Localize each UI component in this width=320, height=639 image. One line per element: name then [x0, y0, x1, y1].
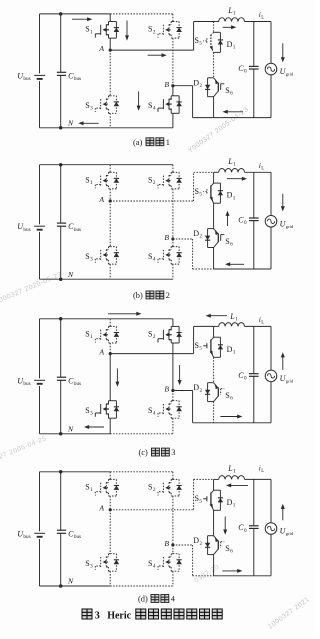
svg-text:D2: D2	[193, 383, 202, 394]
svg-text:S4: S4	[148, 101, 156, 112]
wire left vertical upper (b)	[39, 165, 41, 225]
wire inductor to grid corner (d)	[245, 478, 272, 480]
svg-text:S1: S1	[85, 330, 93, 341]
current arrow 3 (b)	[281, 194, 285, 212]
wire S1 drain lead (a)	[109, 14, 111, 22]
wire A corner vertical (d)	[193, 479, 195, 509]
svg-text:S3: S3	[85, 406, 93, 417]
svg-text:1000327 2021: 1000327 2021	[267, 596, 311, 631]
wire node B to corner (d)	[173, 544, 193, 546]
current arrow 6 (a)	[223, 110, 244, 114]
node top rail junction (c)	[59, 317, 63, 321]
wire B corner vertical (c)	[192, 391, 194, 423]
svg-text:B: B	[164, 80, 169, 89]
svg-text:0327 20: 0327 20	[193, 564, 220, 585]
svg-text:S2: S2	[148, 176, 156, 187]
svg-text:L1: L1	[227, 464, 236, 475]
transistor S5 (a)	[203, 32, 213, 52]
current arrow 2 (d)	[223, 517, 227, 535]
svg-text:1: 1	[166, 138, 170, 147]
figure title	[82, 609, 222, 621]
wire grid branch lower (c)	[270, 382, 272, 423]
svg-text:C0: C0	[238, 215, 247, 226]
wire grid branch upper (b)	[270, 172, 272, 215]
svg-text:S5: S5	[195, 187, 203, 198]
svg-text:S6: S6	[225, 237, 233, 248]
wire B corner to bypass bottom junction (a)	[193, 117, 214, 119]
diode D2 (a)	[205, 78, 214, 97]
current arrow 5 (a)	[281, 43, 285, 62]
wire B corner to bypass bottom junction (d)	[193, 575, 214, 577]
wire grid branch upper (a)	[270, 22, 272, 64]
wire top rail left (d)	[40, 471, 111, 473]
transistor S3	[95, 401, 119, 419]
svg-text:S6: S6	[225, 544, 233, 555]
wire inductor to grid corner (a)	[245, 21, 272, 23]
svg-text:Ugrid: Ugrid	[280, 527, 294, 537]
diode D2 (b)	[205, 229, 214, 248]
wire left vertical lower (b)	[39, 232, 41, 279]
transistor S1	[95, 22, 119, 39]
current arrow 8 (a)	[137, 91, 141, 110]
wire B corner vertical (d)	[192, 545, 194, 576]
svg-text:Cbus: Cbus	[68, 71, 81, 82]
battery Ubus (c)	[34, 380, 45, 384]
wire node A to corner (c)	[110, 353, 193, 355]
svg-text:1000327 2020-05-27: 1000327 2020-05-27	[0, 271, 63, 306]
wire bypass bottom stub (d)	[213, 555, 215, 576]
svg-text:Ugrid: Ugrid	[280, 219, 294, 229]
capacitor C0 (c)	[249, 326, 259, 422]
transistor S1	[95, 326, 119, 343]
svg-text:N: N	[67, 270, 74, 279]
svg-text:iL: iL	[259, 161, 264, 172]
svg-text:2: 2	[166, 291, 170, 300]
svg-text:(c): (c)	[139, 448, 149, 457]
svg-text:D2: D2	[193, 229, 202, 240]
wire A corner to bypass junction (c)	[194, 325, 214, 327]
capacitor Cbus (c)	[57, 319, 66, 434]
source Ugrid (c)	[265, 370, 277, 382]
wire S1 source to node A (a)	[109, 38, 111, 50]
wire S1 source to node A (d)	[109, 496, 111, 510]
wire S1 source to node A (b)	[109, 189, 111, 201]
transistor S2	[158, 172, 182, 189]
svg-text:Y000327 2005-04-23: Y000327 2005-04-23	[187, 106, 250, 154]
wire S2 drain lead (c)	[172, 319, 174, 327]
diode D2 (d)	[205, 536, 214, 555]
svg-text:D2: D2	[193, 78, 202, 89]
wire B corner vertical (a)	[192, 86, 194, 118]
svg-text:N: N	[67, 118, 74, 127]
svg-text:A: A	[98, 504, 104, 513]
svg-text:A: A	[98, 195, 104, 204]
svg-text:N: N	[67, 577, 74, 586]
diode D1 (d)	[214, 490, 224, 510]
node top rail junction (d)	[59, 470, 63, 474]
diode D1 (b)	[214, 183, 224, 203]
transistor S1	[95, 479, 119, 496]
svg-text:Ugrid: Ugrid	[280, 67, 294, 77]
svg-text:A: A	[98, 347, 104, 356]
inductor L1 (c)	[219, 323, 245, 327]
wire node B to corner (b)	[173, 238, 193, 240]
capacitor Cbus (a)	[57, 14, 66, 128]
wire bypass junction to inductor (a)	[214, 21, 219, 23]
wire bypass bottom junction to grid (a)	[214, 117, 271, 119]
node top rail junction (a)	[59, 12, 63, 16]
transistor S3	[95, 554, 119, 572]
current arrow 1 (a)	[72, 17, 92, 21]
wire A corner vertical (c)	[193, 326, 195, 353]
current arrow 3 (a)	[148, 53, 167, 57]
node N (d)	[59, 584, 63, 588]
svg-text:3: 3	[95, 610, 100, 621]
transistor S5 (d)	[203, 490, 213, 510]
wire node B to S4 drain (b)	[172, 239, 174, 247]
svg-text:Ubus: Ubus	[17, 71, 30, 82]
wire node A to S3 drain (b)	[109, 201, 111, 247]
capacitor C0 (a)	[249, 22, 259, 118]
node A (d)	[109, 508, 112, 511]
transistor S4	[158, 96, 182, 114]
node A (b)	[109, 199, 112, 202]
wire S2 drain lead (d)	[172, 472, 174, 480]
wire S1 source to node A (c)	[109, 343, 111, 354]
wire left vertical lower (d)	[39, 539, 41, 586]
svg-text:4: 4	[171, 595, 176, 604]
wire node A to corner (b)	[110, 200, 193, 202]
wire bottom rail right (a)	[110, 127, 173, 129]
wire grid branch lower (d)	[270, 534, 272, 576]
wire A corner vertical (b)	[193, 172, 195, 201]
svg-text:Cbus: Cbus	[68, 529, 81, 540]
wire bypass middle stub (c)	[213, 357, 215, 382]
wire S4 source to bottom rail (c)	[172, 418, 174, 434]
wire S3 source to bottom rail (c)	[109, 418, 111, 434]
transistor S6 (c)	[214, 383, 225, 402]
transistor S5 (c)	[203, 337, 213, 357]
wire S3 source to bottom rail (d)	[109, 571, 111, 586]
wire grid branch lower (b)	[270, 227, 272, 269]
wire bypass junction to inductor (b)	[214, 171, 219, 173]
wire left vertical lower (c)	[39, 386, 41, 434]
wire bypass bottom junction to grid (d)	[214, 575, 271, 577]
wire B corner to bypass bottom junction (c)	[193, 422, 214, 424]
transistor S5 (b)	[203, 183, 213, 203]
transistor S6 (d)	[214, 536, 225, 555]
wire bottom rail left (d)	[40, 585, 111, 587]
svg-text:S1: S1	[85, 483, 93, 494]
wire inductor to grid corner (b)	[245, 171, 272, 173]
wire bypass top stub (d)	[213, 479, 215, 490]
svg-text:C0: C0	[238, 523, 247, 534]
wire bypass bottom junction to grid (c)	[214, 422, 271, 424]
wire S2 drain lead (b)	[172, 165, 174, 173]
svg-text:S4: S4	[148, 406, 156, 417]
svg-text:D1: D1	[227, 40, 236, 51]
wire top rail left (a)	[40, 13, 111, 15]
node N (c)	[59, 432, 63, 436]
current arrow 5 (c)	[281, 352, 285, 370]
source Ugrid (a)	[265, 63, 277, 75]
wire bypass top stub (b)	[213, 172, 215, 183]
current arrow 3 (c)	[115, 368, 119, 386]
svg-text:S3: S3	[85, 101, 93, 112]
node A (a)	[109, 49, 112, 52]
svg-text:C0: C0	[238, 64, 247, 75]
svg-text:S6: S6	[225, 391, 233, 402]
node top rail junction (b)	[59, 163, 63, 167]
svg-text:L1: L1	[227, 6, 236, 17]
transistor S3	[95, 247, 119, 265]
svg-text:S6: S6	[225, 86, 233, 97]
capacitor C0 (d)	[249, 479, 259, 575]
wire A corner to bypass junction (b)	[194, 171, 214, 173]
diode D2 (c)	[205, 383, 214, 402]
wire B corner vertical (b)	[192, 239, 194, 269]
battery Ubus (b)	[34, 226, 45, 230]
node B (c)	[171, 389, 174, 392]
wire top rail right (b)	[110, 164, 173, 166]
svg-text:B: B	[164, 385, 169, 394]
wire S2 source to node B (b)	[172, 189, 174, 239]
wire node B to corner (c)	[173, 390, 193, 392]
current arrow 4 (b)	[225, 262, 244, 266]
current arrow 1 (b)	[227, 177, 247, 181]
wire A corner to bypass junction (a)	[194, 21, 214, 23]
node A (c)	[109, 352, 112, 355]
transistor S6 (a)	[214, 78, 225, 97]
svg-text:S2: S2	[148, 483, 156, 494]
wire bypass bottom junction to grid (b)	[214, 268, 271, 270]
wire left vertical upper (d)	[39, 472, 41, 532]
caption (c)	[139, 448, 176, 457]
svg-text:Ugrid: Ugrid	[280, 374, 294, 384]
wire S3 source to bottom rail (b)	[109, 264, 111, 279]
node B (d)	[171, 543, 174, 546]
wire node A to corner (d)	[110, 509, 193, 511]
svg-text:0327 2005-04-25: 0327 2005-04-25	[0, 435, 48, 464]
wire node B to S4 drain (c)	[172, 391, 174, 401]
wire top rail right (a)	[110, 13, 173, 15]
transistor S4	[158, 247, 182, 265]
wire S2 source to node B (a)	[172, 38, 174, 86]
svg-text:L1: L1	[227, 157, 236, 168]
inductor L1 (d)	[219, 476, 245, 480]
current arrow 2 (c)	[206, 314, 227, 318]
svg-text:S4: S4	[148, 559, 156, 570]
svg-text:Heric: Heric	[107, 610, 131, 621]
wire bypass bottom stub (c)	[213, 402, 215, 423]
svg-text:S5: S5	[195, 494, 203, 505]
wire bypass top stub (a)	[213, 22, 215, 33]
current arrow 4 (d)	[222, 569, 242, 573]
wire bottom rail left (c)	[40, 433, 111, 435]
svg-text:B: B	[164, 539, 169, 548]
svg-text:iL: iL	[259, 464, 264, 475]
source Ugrid (b)	[265, 216, 277, 228]
svg-text:Cbus: Cbus	[68, 222, 81, 233]
wire node A to corner (a)	[110, 49, 193, 51]
svg-text:S2: S2	[148, 330, 156, 341]
svg-text:S4: S4	[148, 252, 156, 263]
node N (a)	[59, 126, 63, 130]
svg-text:(b): (b)	[133, 291, 143, 300]
wire S4 source to bottom rail (a)	[172, 113, 174, 128]
current arrow 7 (a)	[78, 121, 98, 125]
svg-text:iL: iL	[259, 10, 264, 21]
wire bypass middle stub (a)	[213, 52, 215, 77]
caption (b)	[133, 291, 170, 300]
wire S1 drain lead (c)	[109, 319, 111, 327]
wire S1 drain lead (b)	[109, 165, 111, 173]
node N (b)	[59, 277, 63, 281]
wire top rail left (b)	[40, 164, 111, 166]
wire grid branch upper (c)	[270, 326, 272, 370]
caption (a)	[133, 138, 170, 147]
svg-text:S2: S2	[148, 25, 156, 36]
transistor S2	[158, 22, 182, 39]
inductor L1 (b)	[219, 168, 245, 172]
capacitor C0 (b)	[249, 172, 259, 269]
wire S4 source to bottom rail (d)	[172, 571, 174, 586]
battery Ubus (d)	[34, 533, 45, 537]
svg-text:iL: iL	[259, 315, 264, 326]
wire bottom rail left (a)	[40, 127, 111, 129]
transistor S2	[158, 479, 182, 496]
current arrow 4 (a)	[223, 25, 237, 29]
wire left vertical upper (c)	[39, 319, 41, 379]
svg-text:S3: S3	[85, 559, 93, 570]
wire bypass bottom stub (b)	[213, 248, 215, 270]
wire S2 source to node B (c)	[172, 343, 174, 391]
current arrow 1 (c)	[108, 312, 142, 316]
wire top rail right (d)	[110, 471, 173, 473]
wire bottom rail right (c)	[110, 433, 173, 435]
wire top rail left (c)	[40, 318, 111, 320]
svg-text:3: 3	[171, 448, 175, 457]
transistor S4	[158, 401, 182, 419]
transistor S2	[158, 326, 182, 343]
caption (d)	[138, 595, 176, 604]
capacitor Cbus (d)	[57, 472, 66, 586]
wire S3 source to bottom rail (a)	[109, 113, 111, 128]
current arrow 3 (d)	[281, 504, 285, 521]
current arrow 7 (c)	[84, 425, 104, 429]
battery Ubus (a)	[34, 75, 45, 79]
inductor L1 (a)	[219, 18, 245, 22]
svg-text:S5: S5	[195, 341, 203, 352]
svg-text:S1: S1	[85, 25, 93, 36]
wire node B to corner (a)	[173, 85, 193, 87]
wire A corner vertical (a)	[193, 22, 195, 51]
diode D1 (c)	[214, 337, 224, 357]
wire inductor to grid corner (c)	[245, 325, 272, 327]
wire node B to S4 drain (d)	[172, 545, 174, 554]
wire top rail right (c)	[110, 318, 173, 320]
diode D1 (a)	[214, 32, 224, 52]
svg-text:S3: S3	[85, 252, 93, 263]
current arrow 2 (a)	[125, 21, 129, 41]
node B (a)	[171, 84, 174, 87]
svg-text:S1: S1	[85, 176, 93, 187]
wire bypass top stub (c)	[213, 326, 215, 337]
svg-text:D1: D1	[227, 191, 236, 202]
wire S2 drain lead (a)	[172, 14, 174, 22]
svg-text:D2: D2	[193, 536, 202, 547]
transistor S6 (b)	[214, 229, 225, 248]
wire bypass middle stub (d)	[213, 510, 215, 535]
wire bypass junction to inductor (c)	[214, 325, 219, 327]
svg-text:B: B	[164, 233, 169, 242]
transistor S4	[158, 554, 182, 572]
source Ugrid (d)	[265, 523, 277, 535]
wire left vertical lower (a)	[39, 81, 41, 128]
svg-text:L1: L1	[229, 312, 238, 323]
svg-text:S5: S5	[195, 36, 203, 47]
svg-text:N: N	[67, 424, 74, 433]
current arrow 1 (d)	[226, 483, 248, 487]
svg-text:C0: C0	[238, 371, 247, 382]
svg-text:A: A	[98, 44, 104, 53]
wire bottom rail left (b)	[40, 278, 111, 280]
current arrow 6 (c)	[220, 415, 242, 419]
wire left vertical upper (a)	[39, 14, 41, 74]
transistor S1	[95, 172, 119, 189]
wire bottom rail right (d)	[110, 585, 173, 587]
wire node A to S3 drain (a)	[109, 50, 111, 96]
transistor S3	[95, 96, 119, 114]
current arrow 2 (b)	[226, 211, 230, 226]
wire bypass middle stub (b)	[213, 203, 215, 228]
svg-text:(a): (a)	[133, 138, 143, 147]
svg-text:D1: D1	[227, 345, 236, 356]
wire node B to S4 drain (a)	[172, 86, 174, 96]
wire grid branch lower (a)	[270, 75, 272, 118]
wire A corner to bypass junction (d)	[194, 478, 214, 480]
svg-text:Ubus: Ubus	[17, 222, 30, 233]
wire node A to S3 drain (c)	[109, 354, 111, 401]
svg-text:D1: D1	[227, 498, 236, 509]
wire node A to S3 drain (d)	[109, 510, 111, 554]
wire grid branch upper (d)	[270, 479, 272, 522]
wire B corner to bypass bottom junction (b)	[193, 268, 214, 270]
svg-text:Ubus: Ubus	[17, 529, 30, 540]
svg-text:Cbus: Cbus	[68, 376, 81, 387]
wire bypass junction to inductor (d)	[214, 478, 219, 480]
node B (b)	[171, 237, 174, 240]
svg-text:(d): (d)	[138, 595, 148, 604]
svg-text:Ubus: Ubus	[17, 376, 30, 387]
wire bypass bottom stub (a)	[213, 97, 215, 118]
wire S4 source to bottom rail (b)	[172, 264, 174, 279]
current arrow 4 (c)	[178, 365, 182, 385]
wire bottom rail right (b)	[110, 278, 173, 280]
wire S1 drain lead (d)	[109, 472, 111, 480]
wire S2 source to node B (d)	[172, 496, 174, 545]
capacitor Cbus (b)	[57, 165, 66, 280]
